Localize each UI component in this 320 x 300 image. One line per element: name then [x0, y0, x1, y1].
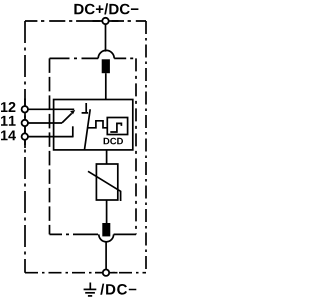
wire stubs at top terminal [93, 20, 119, 22]
terminal 12 circle [22, 106, 28, 112]
SPD module boundary left edge [49, 58, 51, 234]
wire: varistor to bottom disconnector [106, 200, 108, 223]
thermal disconnector F2 (bottom, filled) [102, 223, 110, 236]
enclosure boundary (outer dash-dot box) top edge [25, 20, 146, 22]
terminal 14 circle [22, 133, 28, 139]
SPD module boundary crossing arc (top) [98, 50, 114, 58]
SPD module boundary crossing arc (bottom) [99, 234, 114, 241]
node DC+/DC- label [74, 3, 138, 14]
wire 12 (NC contact line) [28, 108, 74, 110]
varistor RV1 body [96, 164, 117, 200]
NO fixed contact stub for 14 [72, 126, 74, 137]
label DCD [104, 138, 123, 145]
terminal DC- / earth (bottom circle) [103, 270, 109, 276]
label terminal 11 [1, 116, 16, 126]
SPD module boundary (inner dash-dot box) top edge left part [50, 57, 99, 59]
enclosure boundary left edge [24, 21, 26, 273]
wire: bottom arc to bottom terminal [105, 242, 107, 270]
varistor diagonal stroke [88, 171, 121, 201]
wire: DCD unit to varistor [106, 150, 108, 165]
DCD switching unit box [54, 100, 133, 150]
wire: disconnector to DCD unit box [105, 73, 107, 99]
terminal DC+ (top circle) [102, 18, 108, 24]
terminal 11 circle [22, 120, 28, 126]
step function symbol inside trigger box [110, 123, 121, 132]
enclosure boundary right edge [145, 21, 147, 273]
SPD module boundary bottom edge left part [50, 233, 99, 235]
thermal disconnector F1 (top, filled) [102, 59, 110, 73]
node earth/DC- label [100, 284, 136, 295]
wire: top terminal to module boundary arc [105, 24, 107, 51]
changeover contact arm with arrow (remote signalling) [62, 113, 72, 123]
wire: blade to trigger box (with bump) [88, 121, 108, 128]
wire stubs at bottom terminal [95, 272, 118, 274]
DCD main contact fixed stub with tick [82, 103, 89, 114]
enclosure boundary bottom edge [25, 272, 146, 274]
wire 11 (common contact line) [28, 122, 62, 124]
DCD main contact blade [85, 109, 91, 149]
DCD trigger box U1 [107, 118, 127, 135]
label terminal 12 [1, 102, 15, 112]
wire 14 (NO contact line) [28, 136, 73, 138]
label terminal 14 [1, 131, 16, 141]
SPD module boundary top edge right part [114, 57, 136, 59]
SPD module boundary bottom edge right part [114, 233, 136, 235]
SPD module boundary right edge [135, 58, 137, 234]
wire stub connecting signalling terminals [24, 99, 26, 149]
ground symbol [89, 283, 91, 290]
